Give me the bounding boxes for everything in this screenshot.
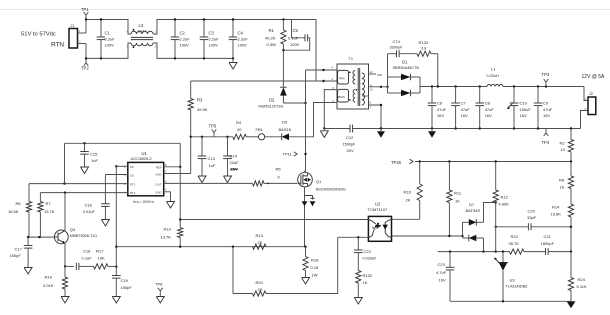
capacitor C18 — [65, 265, 74, 267]
wire L3 out bottom — [153, 43, 233, 58]
capacitor C9 — [537, 87, 539, 104]
wire Q3 base — [28, 236, 54, 238]
test point TP4 — [545, 129, 547, 133]
test point TP3 — [545, 82, 547, 86]
inductor L3 common-mode choke — [131, 31, 153, 34]
svg-text:R11: R11 — [454, 191, 462, 196]
wire U1 pin1 FB — [116, 165, 128, 167]
resistor R4 — [233, 134, 247, 139]
svg-text:REF: REF — [156, 165, 162, 169]
svg-text:R12: R12 — [501, 195, 509, 200]
svg-text:MMBT3904LT1G: MMBT3904LT1G — [70, 234, 97, 238]
source clamp symbol — [305, 195, 313, 197]
wire U1 pin2 SS — [105, 174, 127, 176]
wire T1 pin6 to primary ground — [324, 90, 337, 129]
svg-text:MURS120T3G: MURS120T3G — [259, 105, 284, 109]
svg-text:0: 0 — [278, 175, 281, 180]
svg-text:TP4: TP4 — [542, 140, 550, 145]
svg-text:C17: C17 — [15, 247, 23, 252]
capacitor C21 — [524, 251, 545, 253]
svg-text:PRI: PRI — [339, 77, 344, 81]
wire optocoupler anode bus — [180, 219, 368, 221]
svg-text:12V @ 5A: 12V @ 5A — [582, 74, 606, 80]
wire drain vertical — [305, 70, 307, 172]
wire T1 pin3 stub — [316, 80, 337, 82]
svg-text:D1: D1 — [402, 60, 408, 65]
resistor R20 path — [232, 247, 234, 294]
svg-text:C15: C15 — [90, 152, 98, 157]
svg-text:FB: FB — [130, 165, 134, 169]
test point TP26 — [410, 159, 414, 164]
svg-text:Q3: Q3 — [70, 227, 76, 232]
svg-text:TP26: TP26 — [391, 160, 402, 165]
resistor R6 — [28, 184, 30, 202]
svg-text:2K: 2K — [258, 287, 263, 292]
svg-text:150pF: 150pF — [10, 253, 22, 258]
svg-text:C23: C23 — [438, 262, 446, 267]
svg-text:R6: R6 — [16, 201, 22, 206]
svg-text:3300pF: 3300pF — [390, 46, 404, 50]
svg-text:2KV: 2KV — [347, 149, 355, 153]
ground C19 — [112, 297, 120, 304]
diode D1 SBR30A45CTB — [387, 77, 389, 93]
wire input bottom vertical — [85, 44, 87, 59]
svg-text:2K: 2K — [406, 198, 411, 203]
svg-text:5.11K: 5.11K — [577, 284, 587, 289]
svg-text:OUT: OUT — [155, 182, 162, 186]
svg-text:1uF: 1uF — [91, 158, 98, 163]
svg-text:51V to 57Vdc: 51V to 57Vdc — [21, 32, 56, 38]
svg-text:4.7uF: 4.7uF — [436, 270, 447, 275]
svg-text:20: 20 — [237, 127, 242, 132]
svg-text:freq = 285KHz: freq = 285KHz — [133, 200, 155, 204]
svg-text:C21: C21 — [544, 234, 552, 239]
svg-text:1mH: 1mH — [138, 30, 146, 34]
svg-text:BAT54S: BAT54S — [466, 208, 481, 213]
svg-text:C7: C7 — [461, 101, 467, 106]
wire U1 pin8 REF — [164, 166, 181, 168]
capacitor C19 — [115, 267, 117, 276]
wire compensation bus — [438, 251, 510, 253]
connector J2 — [588, 97, 596, 115]
svg-text:2: 2 — [79, 39, 81, 43]
svg-text:1W: 1W — [312, 273, 318, 278]
svg-text:100V: 100V — [180, 43, 190, 48]
wire to J2 top — [584, 87, 588, 101]
wire bottom bus to L3 — [86, 43, 131, 58]
svg-text:C20: C20 — [528, 209, 536, 214]
svg-text:R4: R4 — [236, 120, 242, 125]
svg-text:1: 1 — [155, 30, 157, 34]
test point TP11 — [294, 152, 297, 156]
svg-text:C14: C14 — [230, 154, 238, 159]
svg-text:L1: L1 — [491, 67, 496, 72]
svg-text:J2: J2 — [589, 92, 593, 96]
wire R16 to U2 collector — [392, 218, 420, 220]
diode D5 BAS16 — [282, 134, 289, 141]
svg-text:0.1uF: 0.1uF — [82, 256, 93, 261]
wire D2 anode to drain node — [283, 102, 305, 104]
svg-text:RT1: RT1 — [130, 182, 136, 186]
capacitor C22 — [357, 237, 359, 250]
svg-text:BSC900N20NS3G: BSC900N20NS3G — [316, 187, 346, 191]
svg-text:TP2: TP2 — [81, 66, 89, 71]
wire Vin vertical to transformer — [315, 20, 317, 82]
svg-text:R3: R3 — [197, 98, 203, 103]
svg-text:47uF: 47uF — [461, 107, 471, 112]
capacitor C16 — [104, 175, 106, 204]
capacitor C6 — [431, 87, 433, 104]
svg-text:0.33uH: 0.33uH — [487, 74, 500, 78]
svg-text:47uF: 47uF — [437, 107, 447, 112]
svg-text:1uF: 1uF — [209, 163, 216, 168]
svg-text:1K: 1K — [455, 199, 460, 204]
svg-text:TCMT1107: TCMT1107 — [368, 207, 388, 212]
svg-text:1: 1 — [124, 165, 126, 169]
svg-text:150uF: 150uF — [520, 107, 532, 112]
test point TP5 — [213, 133, 215, 137]
svg-text:3: 3 — [332, 77, 334, 81]
wire R4 to FB1 — [246, 136, 258, 138]
svg-text:1K: 1K — [560, 185, 565, 190]
ground C16 — [101, 220, 109, 227]
svg-text:100V: 100V — [238, 43, 248, 48]
svg-text:3.9: 3.9 — [421, 47, 426, 51]
svg-text:TP8: TP8 — [155, 282, 163, 287]
capacitor C8 — [479, 87, 481, 104]
svg-text:33pF: 33pF — [527, 215, 537, 220]
svg-text:FB1: FB1 — [256, 127, 264, 132]
svg-text:12: 12 — [370, 70, 374, 74]
svg-text:2K: 2K — [258, 240, 263, 245]
svg-text:R2: R2 — [560, 141, 566, 146]
wire U1 block right rail — [179, 143, 181, 227]
ground primary bias — [323, 127, 325, 129]
wire J1 pin1 to node — [78, 32, 87, 34]
resistor R3 — [190, 81, 192, 99]
ground C17 — [24, 268, 32, 275]
wire FB compensation vertical — [115, 166, 117, 266]
wire drain into mosfet — [305, 170, 306, 172]
svg-text:C19: C19 — [121, 278, 129, 283]
wire L3 out top — [153, 20, 316, 35]
wire block left rail — [64, 143, 66, 183]
svg-text:47uF: 47uF — [543, 107, 553, 112]
svg-text:D5: D5 — [282, 120, 288, 125]
svg-text:49.9K: 49.9K — [197, 107, 208, 112]
resistor R8 — [570, 162, 572, 177]
ground C14 — [224, 176, 232, 183]
svg-text:TP1: TP1 — [81, 7, 89, 12]
resistor R2 — [570, 129, 572, 140]
svg-text:0.1uF: 0.1uF — [288, 36, 299, 41]
svg-text:35.7K: 35.7K — [509, 241, 520, 246]
diode D7 BAT54S — [462, 222, 464, 238]
svg-text:19.6K: 19.6K — [551, 212, 562, 217]
svg-text:aux: aux — [377, 73, 383, 77]
ground R18 — [302, 278, 310, 285]
wire T1 secondary output — [369, 86, 388, 88]
wire top bus to L3 — [86, 20, 131, 35]
svg-text:C3: C3 — [209, 31, 215, 36]
svg-text:2: 2 — [155, 45, 157, 49]
wire Q3 collector — [64, 193, 66, 232]
svg-text:SS: SS — [130, 173, 134, 177]
ground C13 — [198, 176, 206, 183]
ground TP8 — [156, 297, 164, 304]
resistor R22 — [510, 249, 525, 254]
svg-text:TP5: TP5 — [209, 124, 217, 129]
resistor R14 — [568, 204, 573, 217]
svg-text:C74: C74 — [393, 39, 401, 44]
svg-text:150pF: 150pF — [121, 285, 133, 290]
svg-text:D2: D2 — [269, 98, 275, 103]
inductor L1 — [487, 85, 503, 87]
capacitor C14 — [226, 136, 228, 138]
wire R3 top to Vin — [191, 80, 316, 82]
svg-text:TP3: TP3 — [542, 72, 550, 77]
svg-text:2: 2 — [124, 173, 126, 177]
svg-text:16V: 16V — [439, 278, 446, 283]
wire T1 pin4 to drain — [306, 69, 338, 71]
test point TP2 — [85, 58, 87, 62]
resistor R10 — [178, 228, 183, 238]
wire J1 pin2 to node — [78, 43, 87, 45]
svg-text:VDD: VDD — [155, 172, 162, 176]
wire TP26 sense line — [415, 161, 571, 163]
svg-text:100V: 100V — [105, 43, 115, 48]
svg-text:R17: R17 — [96, 249, 104, 254]
svg-text:C12: C12 — [346, 135, 354, 140]
ground secondary at transformer — [380, 129, 382, 132]
svg-text:2.2uF: 2.2uF — [209, 37, 220, 42]
svg-text:R7: R7 — [46, 201, 52, 206]
shunt regulator U3 TL431AIDBZ — [502, 252, 504, 263]
svg-text:16V: 16V — [437, 113, 444, 118]
svg-text:10K: 10K — [98, 256, 105, 261]
svg-text:C22: C22 — [364, 249, 372, 254]
ground R19 — [61, 297, 69, 304]
resistor R13 — [253, 244, 267, 249]
svg-text:C1: C1 — [105, 31, 111, 36]
svg-text:SEC: SEC — [362, 94, 369, 98]
svg-text:R8: R8 — [559, 178, 565, 183]
svg-text:100V: 100V — [290, 42, 300, 47]
resistor R11 — [448, 162, 450, 191]
wire output bottom bus — [353, 128, 581, 130]
svg-text:TP11: TP11 — [283, 152, 293, 157]
svg-text:U2: U2 — [375, 201, 381, 206]
svg-text:13.7K: 13.7K — [161, 235, 172, 240]
svg-text:UCC3809-2: UCC3809-2 — [131, 156, 153, 161]
svg-text:R22: R22 — [511, 234, 519, 239]
svg-text:T1: T1 — [349, 57, 353, 61]
wire input top vertical — [85, 20, 87, 34]
svg-text:RTN: RTN — [51, 42, 64, 49]
wire source — [304, 187, 306, 247]
svg-text:R19: R19 — [45, 275, 53, 280]
svg-text:BIAS: BIAS — [338, 95, 345, 99]
svg-text:0.5W: 0.5W — [267, 42, 277, 47]
test point TP1 — [85, 15, 87, 19]
svg-text:R20: R20 — [256, 280, 264, 285]
svg-text:3: 3 — [124, 182, 126, 186]
transistor Q3 MMBT3904LT1G — [54, 230, 68, 244]
svg-text:16.9K: 16.9K — [8, 209, 19, 214]
svg-text:0.01uF: 0.01uF — [83, 210, 96, 214]
capacitor C13 — [201, 136, 203, 138]
svg-text:13.7K: 13.7K — [44, 209, 55, 214]
wire FB1 to D5 — [265, 136, 282, 138]
diode D2 MURS120T3G — [282, 50, 284, 87]
svg-text:2.2uF: 2.2uF — [105, 37, 116, 42]
capacitor C23 — [449, 252, 451, 268]
wire T1 pin12 aux stub — [369, 73, 377, 75]
resistor R18 — [305, 247, 307, 257]
svg-text:2.2uF: 2.2uF — [180, 37, 191, 42]
svg-text:7: 7 — [165, 169, 167, 173]
wire U1 pin5 GND — [164, 192, 171, 202]
svg-text:R24: R24 — [578, 277, 586, 282]
resistor R24 — [570, 252, 572, 278]
transformer T1 — [337, 64, 369, 109]
svg-text:R5: R5 — [276, 167, 282, 172]
svg-text:8: 8 — [165, 163, 167, 167]
svg-text:10: 10 — [370, 88, 374, 92]
optocoupler U2 TCMT1107 — [368, 216, 391, 241]
wire U1 pin4 RT2 — [40, 192, 127, 194]
svg-text:3.01K: 3.01K — [43, 283, 54, 288]
wire T1 secondary return — [369, 105, 382, 129]
svg-text:GND: GND — [155, 191, 163, 195]
capacitor C74 and resistor R133 snubber — [387, 54, 389, 77]
wire U2 emitter to D7 — [392, 235, 463, 237]
svg-text:C9: C9 — [543, 101, 549, 106]
ground U1 — [167, 202, 175, 209]
resistor R5 — [253, 181, 265, 186]
ground secondary at C6 — [431, 129, 433, 132]
svg-text:C10: C10 — [520, 101, 528, 106]
svg-text:R13: R13 — [256, 233, 264, 238]
svg-text:4: 4 — [332, 66, 334, 70]
svg-text:10: 10 — [561, 147, 566, 152]
svg-text:1K: 1K — [363, 280, 368, 285]
wire Q3 emitter vertical — [64, 243, 66, 267]
wire output top bus — [420, 86, 487, 88]
svg-text:C4: C4 — [238, 31, 244, 36]
wire U1 pin7 VDD — [164, 173, 191, 175]
svg-text:16V: 16V — [461, 113, 468, 118]
svg-text:BAS16: BAS16 — [279, 127, 292, 132]
svg-text:0.033uF: 0.033uF — [363, 257, 378, 261]
capacitor C12 Y-cap — [324, 128, 350, 130]
svg-text:2.2uF: 2.2uF — [238, 37, 249, 42]
svg-text:RT2: RT2 — [130, 191, 136, 195]
svg-text:R18: R18 — [311, 258, 319, 263]
svg-text:C8: C8 — [485, 101, 491, 106]
resistor R132 — [356, 271, 361, 284]
ferrite bead FB1 — [259, 134, 265, 140]
wire optocoupler cathode return — [338, 236, 369, 238]
resistor R1 — [282, 18, 284, 20]
capacitor C5 — [292, 20, 305, 38]
svg-text:C6: C6 — [437, 101, 443, 106]
svg-text:Q1: Q1 — [316, 179, 322, 184]
capacitor C10 — [513, 87, 515, 104]
svg-text:5: 5 — [165, 188, 167, 192]
capacitor C15 — [83, 142, 85, 144]
svg-text:1500pF: 1500pF — [343, 143, 357, 147]
svg-text:16V: 16V — [485, 113, 492, 118]
svg-text:L3: L3 — [139, 23, 144, 28]
wire C15 feed bus — [65, 142, 181, 144]
svg-text:R132: R132 — [363, 273, 373, 278]
wire U1 pin6 OUT gate drive — [164, 182, 253, 184]
svg-text:C2: C2 — [180, 31, 186, 36]
svg-text:D7: D7 — [469, 202, 475, 207]
capacitor C4 — [232, 20, 234, 38]
svg-text:16V: 16V — [543, 113, 550, 118]
ground output right — [567, 301, 576, 308]
wire D5 to bias winding — [289, 103, 337, 137]
wire gate — [264, 182, 297, 184]
svg-text:4.99K: 4.99K — [499, 202, 510, 207]
svg-text:1: 1 — [79, 29, 81, 33]
ground primary input — [232, 58, 234, 62]
svg-text:40.2K: 40.2K — [265, 36, 276, 41]
resistor R17 — [94, 264, 109, 269]
ground C15 — [81, 167, 89, 174]
resistor R16 — [419, 162, 421, 185]
svg-text:C16: C16 — [85, 203, 93, 208]
svg-text:C5: C5 — [293, 28, 299, 33]
capacitor C17 — [27, 237, 29, 245]
svg-text:R133: R133 — [419, 40, 429, 45]
svg-text:47uF: 47uF — [485, 107, 495, 112]
capacitor C1 — [100, 20, 102, 38]
svg-text:R16: R16 — [404, 190, 412, 195]
svg-text:16V: 16V — [520, 113, 527, 118]
svg-text:R14: R14 — [552, 205, 560, 210]
svg-text:SBR30A45CTB: SBR30A45CTB — [393, 66, 420, 70]
svg-text:TL431AIDBZ: TL431AIDBZ — [506, 285, 529, 289]
capacitor C20 — [496, 226, 529, 228]
svg-text:R10: R10 — [164, 227, 172, 232]
IC U1 UCC3809-2 — [128, 162, 164, 195]
capacitor C2 — [174, 20, 176, 38]
resistor R12 — [495, 162, 497, 191]
wire VDD bus — [191, 136, 233, 138]
svg-text:U3: U3 — [510, 278, 516, 283]
mosfet Q1 BSC900N20NS3G — [298, 172, 313, 187]
svg-text:0.18: 0.18 — [311, 265, 320, 270]
connector J1 — [69, 29, 78, 49]
wire from J2 bottom — [581, 111, 589, 129]
capacitor C7 — [455, 87, 457, 104]
svg-text:22uF: 22uF — [230, 160, 240, 165]
svg-text:6: 6 — [165, 179, 167, 183]
wire R17 to FB node — [108, 265, 116, 267]
resistor R7 — [39, 193, 41, 202]
ground R132 — [354, 298, 362, 305]
svg-text:C13: C13 — [208, 156, 216, 161]
wire U1 pin3 RT1 — [29, 183, 128, 185]
wire source sense bus — [116, 246, 305, 248]
wire bottom analog bus — [450, 300, 571, 302]
svg-text:C18: C18 — [83, 249, 91, 254]
resistor R19 — [64, 266, 66, 277]
capacitor C3 — [203, 20, 205, 38]
